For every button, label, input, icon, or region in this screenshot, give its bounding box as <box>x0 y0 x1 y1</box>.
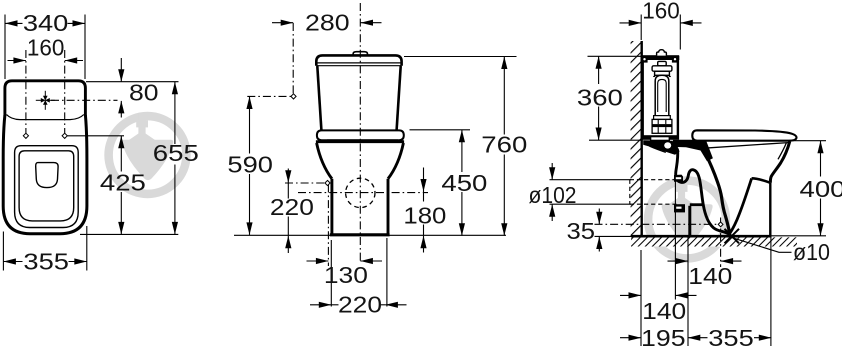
front view lid seam lines <box>316 62 401 64</box>
diamond on drain centerline <box>718 222 723 227</box>
side view inlet connector lower <box>674 204 685 212</box>
front view drain dashed circle <box>346 178 375 207</box>
side view bowl back curve <box>705 153 730 233</box>
svg-text:220: 220 <box>270 194 314 220</box>
side view bowl front inner line <box>778 143 786 160</box>
side view rim lower edge <box>702 143 788 149</box>
side view cistern lid <box>641 56 679 60</box>
top view center cross <box>36 91 55 110</box>
side view flush channel <box>643 140 679 155</box>
side view trap shelf <box>690 203 702 206</box>
top view bowl outline <box>3 115 87 234</box>
side view flush outlet <box>651 137 670 141</box>
svg-text:655: 655 <box>153 140 199 166</box>
svg-text:130: 130 <box>324 262 368 288</box>
top view centerlines and extension lines <box>3 15 178 271</box>
side view cistern outline <box>643 56 678 138</box>
front view push button <box>353 52 367 55</box>
dimension 130 front <box>307 260 383 262</box>
dimension 355 side <box>688 337 772 339</box>
front view bowl rim edge <box>316 140 404 143</box>
dimension 425 <box>120 136 122 235</box>
svg-text:80: 80 <box>129 80 159 106</box>
dimension 220 bottom front <box>310 304 407 306</box>
dimension 140 lower (inlet from wall) <box>620 294 697 296</box>
top view tank bottom edge <box>7 115 84 120</box>
svg-text:35: 35 <box>567 218 596 244</box>
svg-text:760: 760 <box>481 132 527 158</box>
side view fill valve <box>652 61 672 133</box>
svg-text:400: 400 <box>800 176 842 202</box>
side view inlet connector upper <box>674 175 683 182</box>
floor hatch <box>631 237 797 246</box>
dimension 760 <box>503 57 505 236</box>
front view seat band <box>317 130 404 140</box>
dimension 280 <box>272 22 382 24</box>
svg-text:195: 195 <box>641 325 686 349</box>
svg-text:355: 355 <box>23 249 69 275</box>
dimension 655 <box>174 82 176 235</box>
dimension 140 upper (drain offset) <box>668 260 742 262</box>
front view connection diamonds <box>291 94 330 186</box>
front view pedestal <box>330 179 333 235</box>
top view hinge hole diamonds <box>23 133 67 138</box>
dimension 160 side <box>620 22 702 24</box>
side view fixing X mark <box>725 229 740 244</box>
svg-text:360: 360 <box>577 85 623 111</box>
front view floor line <box>234 234 506 236</box>
svg-text:450: 450 <box>441 170 487 196</box>
svg-text:220: 220 <box>338 291 382 317</box>
top view tank outline <box>5 81 86 116</box>
front view centerline <box>359 3 361 262</box>
svg-text:ø10: ø10 <box>793 239 830 265</box>
svg-text:590: 590 <box>227 152 273 178</box>
svg-text:180: 180 <box>403 202 446 228</box>
svg-text:425: 425 <box>100 170 146 196</box>
top view seat outer ring <box>15 146 79 228</box>
front view reference lines <box>247 23 516 307</box>
wall line <box>641 41 643 237</box>
side view foot front <box>769 183 771 236</box>
dimension 220 left <box>287 169 289 254</box>
side view reference lines <box>550 15 827 347</box>
svg-text:355: 355 <box>708 325 754 349</box>
dimension 340 <box>5 22 85 24</box>
top view seat inner ring <box>19 151 74 221</box>
svg-text:340: 340 <box>23 10 69 36</box>
dimension 180 <box>423 168 425 253</box>
dimension 590 <box>249 97 251 235</box>
dimension 35 <box>598 209 600 252</box>
dimension ø102 <box>551 163 553 221</box>
side view bowl front profile <box>770 141 789 183</box>
svg-text:160: 160 <box>27 35 65 61</box>
svg-text:280: 280 <box>305 9 350 35</box>
dimension 80 <box>120 58 122 118</box>
floor line <box>631 235 772 238</box>
dimension 400 <box>820 141 822 236</box>
wall hatch <box>631 41 642 236</box>
front view cistern lid <box>316 55 401 65</box>
dimension 195 <box>620 337 641 339</box>
side view foot ledge <box>752 178 771 183</box>
front view tank sides <box>317 66 321 130</box>
side view rim block <box>673 140 713 161</box>
svg-text:140: 140 <box>688 263 732 289</box>
front view bowl sides <box>317 143 332 179</box>
leader to ø10 <box>731 237 792 252</box>
dimension 355 top view <box>3 261 86 263</box>
svg-text:ø102: ø102 <box>529 182 577 208</box>
watermark logo right (ring + trowel) <box>648 178 726 259</box>
side view cistern bottom <box>642 135 679 139</box>
side view bowl lower front curve <box>729 178 751 234</box>
side view hidden pipe dashes <box>630 180 677 205</box>
side view push button <box>657 50 667 56</box>
dimension 450 <box>461 130 463 236</box>
dimension 360 <box>598 56 600 140</box>
top view water spot <box>36 163 58 188</box>
watermark logo left (ring + trowel) <box>109 113 187 194</box>
svg-text:160: 160 <box>642 0 680 23</box>
side view seat lid <box>692 130 796 140</box>
dimension 160 top <box>8 60 84 62</box>
svg-text:140: 140 <box>642 298 686 324</box>
